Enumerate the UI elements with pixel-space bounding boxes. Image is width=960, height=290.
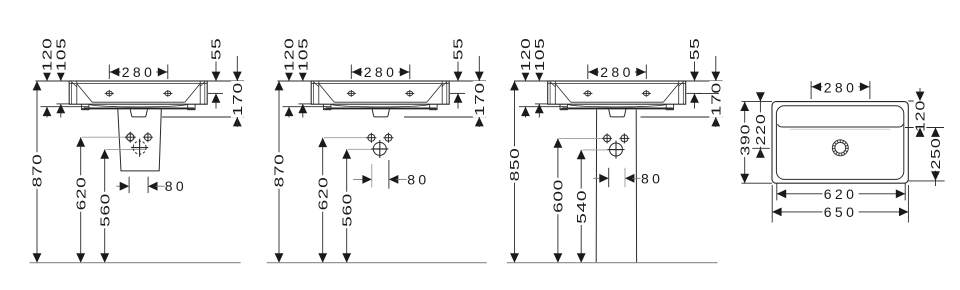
PANEL 1 : basin with siphon cover — [69, 81, 207, 117]
leader line upper holes — [324, 137, 367, 139]
diamond marker on left fixing hole — [125, 132, 135, 142]
dimension 80 — [371, 164, 373, 187]
waste hole — [607, 141, 624, 159]
svg-text:80: 80 — [641, 170, 663, 186]
basin outer rim — [772, 102, 908, 184]
svg-text:250: 250 — [929, 138, 943, 170]
svg-text:600: 600 — [551, 179, 565, 213]
fixing hole left — [366, 133, 376, 143]
extension line tap hole centre extra (panel3) — [697, 92, 719, 94]
svg-text:620: 620 — [824, 186, 858, 202]
leader line upper holes — [559, 137, 603, 139]
drain: outer ring — [832, 140, 848, 156]
svg-text:870: 870 — [273, 154, 287, 188]
dimension 600 — [557, 138, 559, 262]
svg-text:80: 80 — [407, 171, 429, 187]
basin inner bowl — [776, 106, 903, 180]
dimension 870 — [278, 81, 280, 263]
floor line panel 1 — [30, 262, 241, 264]
svg-text:120: 120 — [914, 100, 928, 132]
drain: inner circle — [835, 142, 846, 153]
fixing hole left — [602, 133, 612, 143]
svg-text:620: 620 — [74, 177, 88, 211]
dimension 540 — [580, 150, 582, 263]
dimension 620 — [80, 137, 82, 262]
svg-text:650: 650 — [824, 204, 858, 220]
dimension 850 — [514, 81, 516, 263]
fixing hole right — [619, 133, 629, 143]
svg-text:850: 850 — [508, 148, 522, 182]
waste hole — [371, 140, 388, 158]
dimension 280 (top view) — [810, 81, 812, 99]
extension lines bottom — [776, 184, 778, 201]
fixing hole right — [383, 133, 393, 143]
pedestal — [596, 110, 636, 263]
dimension 220 (top view) — [759, 93, 761, 102]
svg-text:540: 540 — [575, 190, 589, 224]
dimension 620 — [322, 138, 324, 263]
svg-text:870: 870 — [31, 154, 45, 188]
dimension 80 — [608, 168, 610, 187]
floor line panel 3 — [507, 262, 718, 264]
svg-text:220: 220 — [754, 114, 768, 146]
dimension 250 (top view) — [935, 128, 937, 181]
svg-text:620: 620 — [316, 177, 330, 211]
dimension 390 (top view) — [744, 102, 746, 184]
svg-text:280: 280 — [824, 80, 858, 96]
svg-text:560: 560 — [98, 193, 112, 227]
extension lines top view right — [908, 100, 926, 102]
PANEL 3 : basin with pedestal — [548, 81, 686, 117]
leader line upper holes — [82, 136, 127, 138]
svg-text:390: 390 — [739, 124, 753, 156]
svg-text:560: 560 — [340, 193, 354, 227]
dimension 560 — [346, 149, 348, 262]
extension lines top view left — [742, 101, 773, 103]
svg-text:80: 80 — [165, 178, 187, 194]
dimension 80 — [128, 177, 130, 193]
leader line lower hole — [583, 149, 623, 151]
leader line lower hole — [106, 148, 146, 150]
waste hole (dashed) — [131, 139, 148, 157]
dimension 120 (top view) — [919, 88, 921, 101]
dimension 560 — [104, 149, 106, 262]
drain: knurled ring — [834, 141, 847, 154]
leader line lower hole — [348, 148, 385, 150]
dimension 650 (top view) — [772, 211, 908, 213]
bowl shelf shadow line — [790, 128, 890, 130]
floor line panel 2 — [267, 262, 487, 264]
bowl shelf line — [778, 124, 904, 127]
fixing hole right — [143, 132, 153, 142]
fixing hole left — [125, 132, 135, 142]
dimension 620 (top view) — [777, 193, 905, 195]
dimension 870 floor to rim — [36, 81, 38, 263]
PANEL 2 : basin with exposed siphon holes — [311, 81, 449, 117]
siphon cover — [118, 109, 162, 171]
